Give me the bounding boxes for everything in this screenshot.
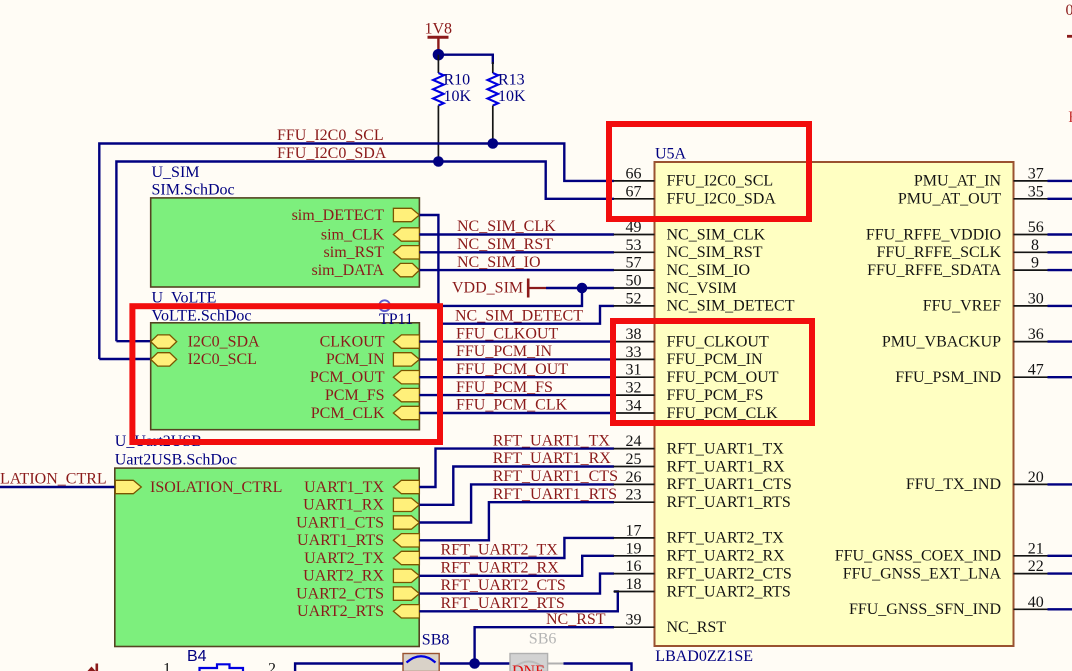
svg-text:19: 19 (626, 540, 642, 557)
wire at pin 20 (1048, 483, 1072, 485)
svg-text:I2C0_SDA: I2C0_SDA (188, 333, 260, 350)
svg-text:LBAD0ZZ1SE: LBAD0ZZ1SE (655, 648, 753, 665)
sheet pin UART2_CTS (296, 585, 419, 602)
test point TP11 (379, 300, 413, 328)
designator B4 (187, 648, 207, 665)
svg-text:RFT_UART2_TX: RFT_UART2_TX (441, 542, 559, 559)
svg-text:39: 39 (626, 612, 642, 629)
highlight rect U5A I2C pins (609, 124, 809, 219)
label NC_SIM_IO (457, 254, 541, 271)
svg-text:RFT_UART2_RX: RFT_UART2_RX (441, 559, 560, 576)
svg-text:RFT_UART1_RTS: RFT_UART1_RTS (493, 486, 617, 503)
svg-text:20: 20 (1028, 469, 1044, 486)
svg-text:VDD_SIM: VDD_SIM (452, 279, 523, 296)
designator U5A (655, 146, 687, 163)
wire ISOLATION_CTRL (0, 486, 115, 488)
svg-text:FFU_CLKOUT: FFU_CLKOUT (456, 325, 558, 342)
wire 1V8 rail to R13 (438, 55, 492, 64)
svg-text:FFU_PCM_FS: FFU_PCM_FS (667, 387, 764, 404)
svg-text:DNE: DNE (512, 663, 545, 671)
svg-text:PCM_IN: PCM_IN (326, 351, 385, 368)
wire at pin 22 (1048, 572, 1072, 574)
svg-text:RFT_UART1_RTS: RFT_UART1_RTS (667, 494, 791, 511)
label RFT_UART1_CTS (493, 468, 618, 485)
svg-text:16: 16 (626, 558, 642, 575)
wire at pin 21 (1048, 555, 1072, 557)
svg-text:23: 23 (626, 487, 642, 504)
wire RFT_UART1_TX (419, 449, 614, 487)
wire FFU_I2C0_SDA (116, 162, 614, 342)
highlight rect U_VoLTE (132, 306, 440, 442)
sheet pin UART1_CTS (296, 514, 419, 531)
junction R10-SDA (433, 156, 444, 167)
sheet file VoLTE.SchDoc (152, 307, 252, 324)
svg-text:VoLTE.SchDoc: VoLTE.SchDoc (152, 307, 252, 324)
svg-text:ISOLATION_CTRL: ISOLATION_CTRL (150, 479, 282, 496)
svg-text:NC_SIM_DETECT: NC_SIM_DETECT (667, 298, 795, 315)
svg-text:FFU_PCM_IN: FFU_PCM_IN (456, 343, 552, 360)
svg-text:LATION_CTRL: LATION_CTRL (0, 471, 107, 488)
wire FFU_I2C0_SDA to sheet (116, 340, 150, 342)
svg-text:I2C0_SCL: I2C0_SCL (188, 351, 257, 368)
sheet pin UART2_RX (303, 568, 419, 585)
svg-text:U5A: U5A (655, 146, 687, 163)
svg-text:sim_DATA: sim_DATA (312, 262, 385, 279)
svg-text:40: 40 (1028, 594, 1044, 611)
svg-text:50: 50 (626, 273, 642, 290)
svg-text:30: 30 (1028, 290, 1044, 307)
svg-text:FF: FF (1068, 109, 1072, 126)
svg-text:PMU_VBACKUP: PMU_VBACKUP (882, 333, 1001, 350)
pin 25 RFT_UART1_RX (614, 451, 786, 475)
pin 33 FFU_PCM_IN (614, 344, 763, 368)
clipped red label at right edge (1068, 109, 1072, 126)
label NC_RST (546, 611, 606, 628)
wire RFT_UART2_TX (419, 538, 614, 558)
svg-text:NC_SIM_CLK: NC_SIM_CLK (667, 226, 766, 243)
pin 67 FFU_I2C0_SDA (614, 183, 777, 207)
svg-text:38: 38 (626, 326, 642, 343)
svg-text:32: 32 (626, 380, 642, 397)
svg-text:RFT_UART1_CTS: RFT_UART1_CTS (667, 476, 792, 493)
svg-text:1V8: 1V8 (425, 21, 453, 38)
wire at pin 56 (1048, 233, 1072, 235)
label RFT_UART2_TX (441, 542, 559, 559)
svg-text:67: 67 (626, 183, 642, 200)
pin 19 RFT_UART2_RX (614, 540, 786, 564)
label RFT_UART2_RTS (441, 595, 565, 612)
sheet pin UART2_TX (304, 550, 419, 567)
pin 37 PMU_AT_IN (914, 165, 1048, 189)
svg-text:FFU_RFFE_SCLK: FFU_RFFE_SCLK (877, 244, 1002, 261)
svg-text:57: 57 (626, 255, 642, 272)
label RFT_UART1_RX (493, 450, 612, 467)
pin 49 NC_SIM_CLK (614, 219, 766, 243)
wire at pin 40 (1048, 608, 1072, 610)
svg-text:U_SIM: U_SIM (152, 164, 200, 181)
sheet designator U_VoLTE (152, 290, 217, 307)
designator SB6 (greyed) (529, 630, 557, 647)
wire at pin 9 (1048, 269, 1072, 271)
svg-text:FFU_PCM_CLK: FFU_PCM_CLK (667, 405, 779, 422)
svg-text:18: 18 (626, 576, 642, 593)
pin 34 FFU_PCM_CLK (614, 398, 779, 422)
svg-text:SIM.SchDoc: SIM.SchDoc (152, 182, 235, 199)
svg-text:10K: 10K (498, 88, 526, 105)
wire at pin 30 (1048, 305, 1072, 307)
svg-text:47: 47 (1028, 362, 1044, 379)
svg-text:UART2_RTS: UART2_RTS (297, 603, 384, 620)
junction bottom (469, 658, 480, 669)
svg-text:NC_SIM_IO: NC_SIM_IO (667, 262, 751, 279)
svg-text:24: 24 (626, 433, 642, 450)
pin 39 NC_RST (614, 612, 727, 636)
pin 20 FFU_TX_IND (906, 469, 1048, 493)
label RFT_UART1_RTS (493, 486, 617, 503)
svg-text:66: 66 (626, 165, 642, 182)
svg-text:35: 35 (1028, 183, 1044, 200)
sheet pin UART1_RTS (297, 532, 419, 549)
svg-text:FFU_RFFE_VDDIO: FFU_RFFE_VDDIO (866, 226, 1001, 243)
pin 23 RFT_UART1_RTS (614, 487, 791, 511)
label RFT_UART2_RX (441, 559, 560, 576)
resistor R10 (433, 55, 471, 162)
wire VDD_SIM to pin 50 (546, 287, 614, 289)
svg-text:RFT_UART2_RTS: RFT_UART2_RTS (441, 595, 565, 612)
sheet symbol U_Uart2USB (115, 468, 419, 646)
junction VDD_SIM (577, 283, 588, 294)
svg-text:21: 21 (1028, 540, 1044, 557)
svg-text:RFT_UART1_TX: RFT_UART1_TX (667, 440, 785, 457)
pin 22 FFU_GNSS_EXT_LNA (843, 558, 1048, 582)
svg-text:RFT_UART1_RX: RFT_UART1_RX (667, 458, 786, 475)
svg-text:PCM_FS: PCM_FS (325, 387, 385, 404)
pin 21 FFU_GNSS_COEX_IND (835, 540, 1048, 564)
wire FFU_CLKOUT (419, 340, 614, 342)
svg-text:NC_SIM_RST: NC_SIM_RST (457, 236, 553, 253)
wire RFT_UART2_CTS (419, 574, 614, 594)
part number LBAD0ZZ1SE (655, 648, 753, 665)
svg-text:Uart2USB.SchDoc: Uart2USB.SchDoc (115, 452, 237, 469)
label FFU_I2C0_SCL (277, 127, 384, 144)
designator SB8 (422, 632, 450, 649)
wire FFU_I2C0_SCL (99, 144, 614, 360)
sheet pin sim_CLK (321, 226, 420, 243)
pin 66 FFU_I2C0_SCL (614, 165, 774, 189)
label FFU_I2C0_SDA (277, 145, 387, 162)
sheet pin I2C0_SDA (151, 333, 260, 350)
sheet designator U_Uart2USB (115, 433, 202, 450)
svg-text:FFU_I2C0_SCL: FFU_I2C0_SCL (277, 127, 384, 144)
svg-text:CLKOUT: CLKOUT (320, 333, 385, 350)
svg-text:10K: 10K (444, 88, 472, 105)
pin 30 FFU_VREF (923, 290, 1048, 314)
pin 57 NC_SIM_IO (614, 255, 751, 279)
wire FFU_I2C0_SCL to sheet (99, 358, 150, 360)
sheet pin UART1_TX (304, 479, 419, 496)
svg-text:FFU_PCM_IN: FFU_PCM_IN (667, 351, 763, 368)
svg-text:RFT_UART2_RX: RFT_UART2_RX (667, 548, 786, 565)
sheet pin PCM_IN (326, 351, 420, 368)
pin 24 RFT_UART1_TX (614, 433, 785, 457)
wire sim_DETECT run (419, 215, 614, 324)
svg-text:sim_DETECT: sim_DETECT (292, 207, 385, 224)
svg-text:UART1_CTS: UART1_CTS (296, 514, 384, 531)
sheet file SIM.SchDoc (152, 182, 235, 199)
wire FFU_PCM_CLK (419, 412, 614, 414)
junction under 1V8 (433, 49, 444, 60)
svg-text:36: 36 (1028, 326, 1044, 343)
label FFU_PCM_IN (456, 343, 552, 360)
svg-text:NC_VSIM: NC_VSIM (667, 280, 737, 297)
svg-text:SB8: SB8 (422, 632, 450, 649)
svg-text:UART1_RTS: UART1_RTS (297, 532, 384, 549)
op-amp/IC U5A body (655, 162, 1014, 646)
svg-text:B4: B4 (187, 648, 207, 665)
svg-text:25: 25 (626, 451, 642, 468)
label NC_SIM_DETECT (455, 307, 583, 324)
svg-text:TP11: TP11 (379, 311, 413, 328)
sheet pin I2C0_SCL (151, 351, 257, 368)
wire bead to SB8 (295, 664, 403, 671)
label FFU_PCM_CLK (456, 397, 568, 414)
junction R13-SCL (488, 138, 499, 149)
pin 31 FFU_PCM_OUT (614, 362, 779, 386)
svg-text:UART2_RX: UART2_RX (303, 568, 384, 585)
svg-text:sim_CLK: sim_CLK (321, 226, 385, 243)
wire RFT_UART2_RX (419, 556, 614, 576)
svg-text:FFU_CLKOUT: FFU_CLKOUT (667, 333, 769, 350)
DNE marker (512, 663, 545, 671)
wire NC_SIM_CLK (419, 233, 614, 235)
svg-text:26: 26 (626, 469, 642, 486)
power port 1V8 (425, 21, 453, 51)
svg-text:UART1_RX: UART1_RX (303, 497, 384, 514)
pin 36 PMU_VBACKUP (882, 326, 1048, 350)
svg-text:53: 53 (626, 237, 642, 254)
sheet pin ISOLATION_CTRL (115, 479, 282, 496)
sheet pin PCM_CLK (311, 405, 420, 422)
svg-text:FFU_PCM_OUT: FFU_PCM_OUT (456, 361, 568, 378)
pin 32 FFU_PCM_FS (614, 380, 764, 404)
svg-text:RFT_UART1_RX: RFT_UART1_RX (493, 450, 612, 467)
sheet pin sim_DETECT (292, 207, 420, 224)
svg-text:31: 31 (626, 362, 642, 379)
ferrite bead B4 (200, 664, 244, 671)
svg-text:FFU_RFFE_SDATA: FFU_RFFE_SDATA (867, 262, 1001, 279)
label NC_SIM_CLK (457, 218, 556, 235)
svg-text:PMU_AT_IN: PMU_AT_IN (914, 173, 1002, 190)
pin 47 FFU_PSM_IND (895, 362, 1047, 386)
pin 53 NC_SIM_RST (614, 237, 763, 261)
wire FFU_PCM_IN (419, 358, 614, 360)
svg-text:0: 0 (1066, 2, 1072, 19)
label RFT_UART1_TX (493, 432, 611, 449)
sheet pin UART2_RTS (297, 603, 419, 620)
sheet pin sim_DATA (312, 262, 420, 279)
svg-text:52: 52 (626, 290, 642, 307)
svg-text:2: 2 (268, 661, 276, 671)
svg-text:RFT_UART2_RTS: RFT_UART2_RTS (667, 583, 791, 600)
svg-text:RFT_UART1_TX: RFT_UART1_TX (493, 432, 611, 449)
wire at pin 36 (1048, 340, 1072, 342)
power port VDD_SIM (452, 279, 546, 298)
svg-text:RFT_UART2_CTS: RFT_UART2_CTS (667, 565, 792, 582)
sheet pin PCM_FS (325, 387, 419, 404)
svg-text:NC_SIM_IO: NC_SIM_IO (457, 254, 541, 271)
svg-text:UART2_CTS: UART2_CTS (296, 585, 384, 602)
label FFU_PCM_OUT (456, 361, 568, 378)
wire RFT_UART1_RX (419, 467, 614, 505)
pin 52 NC_SIM_DETECT (614, 290, 795, 314)
label NC_SIM_RST (457, 236, 553, 253)
svg-text:FFU_PSM_IND: FFU_PSM_IND (895, 369, 1001, 386)
pin 17 RFT_UART2_TX (614, 522, 785, 546)
sheet file Uart2USB.SchDoc (115, 452, 237, 469)
svg-text:22: 22 (1028, 558, 1044, 575)
svg-text:NC_SIM_CLK: NC_SIM_CLK (457, 218, 556, 235)
sheet symbol U_VoLTE (151, 323, 420, 430)
svg-text:FFU_PCM_OUT: FFU_PCM_OUT (667, 369, 779, 386)
label FFU_CLKOUT (456, 325, 558, 342)
pin 38 FFU_CLKOUT (614, 326, 769, 350)
sheet pin PCM_OUT (310, 369, 420, 386)
wire RFT_UART2_RTS (419, 592, 617, 612)
svg-text:FFU_VREF: FFU_VREF (923, 298, 1001, 315)
svg-text:17: 17 (626, 522, 642, 539)
svg-text:8: 8 (1031, 237, 1039, 254)
wire RFT_UART1_CTS (419, 484, 614, 522)
wire junction to SB6 (475, 662, 510, 664)
svg-text:FFU_PCM_FS: FFU_PCM_FS (456, 379, 553, 396)
svg-text:NC_SIM_DETECT: NC_SIM_DETECT (455, 307, 583, 324)
svg-text:UART1_TX: UART1_TX (304, 479, 384, 496)
svg-text:FFU_I2C0_SCL: FFU_I2C0_SCL (667, 173, 774, 190)
wire at pin 8 (1048, 251, 1072, 253)
svg-text:RFT_UART2_CTS: RFT_UART2_CTS (441, 577, 566, 594)
pin 18 RFT_UART2_RTS (614, 576, 791, 600)
pin 16 RFT_UART2_CTS (614, 558, 792, 582)
wire RFT_UART1_RTS (419, 502, 614, 540)
sheet pin CLKOUT (320, 333, 420, 350)
wire at pin 35 (1048, 198, 1072, 200)
svg-text:FFU_GNSS_COEX_IND: FFU_GNSS_COEX_IND (835, 548, 1001, 565)
wire SB6 right (564, 664, 632, 671)
svg-text:R10: R10 (444, 72, 471, 89)
svg-text:RFT_UART1_CTS: RFT_UART1_CTS (493, 468, 618, 485)
wire at pin 37 (1048, 180, 1072, 182)
pin 35 PMU_AT_OUT (898, 183, 1048, 207)
pin 26 RFT_UART1_CTS (614, 469, 792, 493)
svg-text:PMU_AT_OUT: PMU_AT_OUT (898, 191, 1001, 208)
svg-text:R13: R13 (498, 72, 525, 89)
svg-text:FFU_TX_IND: FFU_TX_IND (906, 476, 1001, 493)
svg-text:9: 9 (1031, 255, 1039, 272)
wire SB8 to junction (439, 662, 474, 664)
wire VDD_SIM branch (438, 288, 582, 306)
sheet pin sim_RST (324, 244, 420, 261)
wire FFU_PCM_FS (419, 394, 614, 396)
pin number 1 of B4 (163, 661, 171, 671)
pin 56 FFU_RFFE_VDDIO (866, 219, 1048, 243)
svg-text:UART2_TX: UART2_TX (304, 550, 384, 567)
svg-text:SB6: SB6 (529, 630, 557, 647)
wire NC_RST (475, 627, 614, 663)
pin 50 NC_VSIM (614, 273, 737, 297)
sheet designator U_SIM (152, 164, 200, 181)
clipped power net at top right corner (1066, 2, 1072, 37)
svg-text:37: 37 (1028, 165, 1044, 182)
wire NC_SIM_RST (419, 251, 614, 253)
svg-text:NC_RST: NC_RST (546, 611, 606, 628)
svg-text:RFT_UART2_TX: RFT_UART2_TX (667, 530, 785, 547)
label FFU_PCM_FS (456, 379, 553, 396)
sheet pin UART1_RX (303, 497, 419, 514)
svg-text:PCM_OUT: PCM_OUT (310, 369, 385, 386)
power port stub bottom left (88, 664, 97, 671)
svg-text:PCM_CLK: PCM_CLK (311, 405, 385, 422)
resistor R13 (488, 62, 527, 144)
svg-text:FFU_I2C0_SDA: FFU_I2C0_SDA (667, 191, 777, 208)
solder bridge SB8 (403, 654, 439, 671)
label LATION_CTRL (clipped) (0, 471, 107, 488)
pin 9 FFU_RFFE_SDATA (867, 255, 1047, 279)
pin number 2 of B4 (268, 661, 276, 671)
svg-text:56: 56 (1028, 219, 1044, 236)
wire at pin 47 (1048, 376, 1072, 378)
svg-text:1: 1 (163, 661, 171, 671)
solder bridge SB6 (DNE, greyed) (510, 654, 564, 671)
svg-text:FFU_GNSS_EXT_LNA: FFU_GNSS_EXT_LNA (843, 565, 1002, 582)
wire FFU_PCM_OUT (419, 376, 614, 378)
pin 40 FFU_GNSS_SFN_IND (849, 594, 1048, 618)
label RFT_UART2_CTS (441, 577, 566, 594)
svg-text:FFU_I2C0_SDA: FFU_I2C0_SDA (277, 145, 387, 162)
svg-text:NC_SIM_RST: NC_SIM_RST (667, 244, 763, 261)
svg-text:33: 33 (626, 344, 642, 361)
svg-text:FFU_PCM_CLK: FFU_PCM_CLK (456, 397, 568, 414)
svg-text:NC_RST: NC_RST (667, 619, 727, 636)
svg-text:34: 34 (626, 398, 642, 415)
wire NC_SIM_IO (419, 269, 614, 271)
svg-text:sim_RST: sim_RST (324, 244, 385, 261)
svg-text:FFU_GNSS_SFN_IND: FFU_GNSS_SFN_IND (849, 601, 1001, 618)
sheet symbol U_SIM (151, 198, 420, 287)
pin 8 FFU_RFFE_SCLK (877, 237, 1048, 261)
highlight rect FFU_PCM pins (613, 321, 812, 423)
